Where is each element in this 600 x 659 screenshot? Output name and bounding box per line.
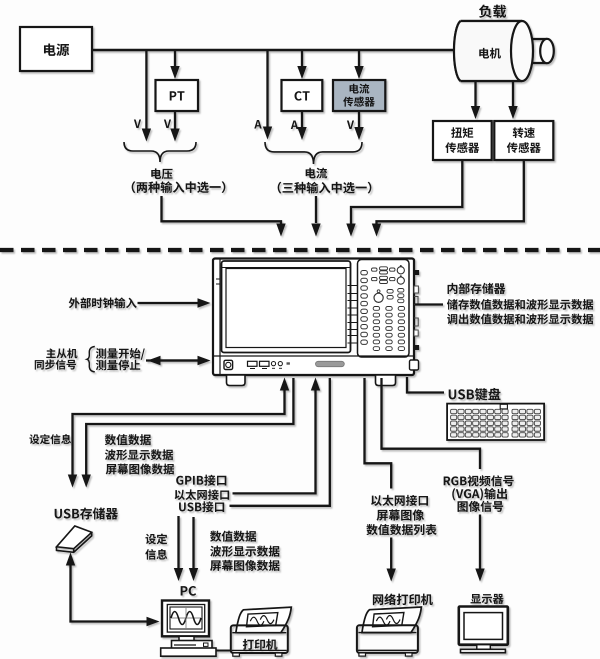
wire torque sensor to analyzer	[351, 160, 462, 224]
wire network printer from analyzer	[365, 378, 392, 489]
vent slot	[316, 361, 345, 366]
wire usb storage setting info (bidirectional)	[73, 389, 285, 476]
panel knob B	[397, 277, 404, 284]
label PC	[181, 586, 196, 596]
pc base	[172, 641, 213, 649]
arrow to network printer	[390, 538, 392, 571]
panel knob A	[397, 267, 404, 274]
arrow into current sensor	[358, 50, 360, 67]
label 调出数值数据和波形显示数据	[447, 314, 593, 325]
label 波形显示数据 (usb storage)	[105, 449, 173, 460]
box 扭矩传感器 (torque sensor)	[433, 121, 492, 160]
wire main bus	[92, 49, 453, 52]
power button	[224, 360, 233, 369]
arrow usb interface down to pc	[177, 516, 179, 570]
label 信息 (pc column)	[145, 549, 167, 560]
control panel	[358, 260, 410, 358]
panel soft keys column	[361, 271, 368, 275]
side connector black bottom	[415, 345, 420, 350]
box 转速传感器 (speed sensor)	[494, 121, 553, 160]
softkey ticks	[348, 285, 360, 287]
printer 打印机	[236, 607, 291, 633]
label 数值数据 (pc column)	[210, 531, 256, 542]
wire current group to analyzer	[315, 196, 317, 223]
wire usb storage data out	[86, 378, 293, 476]
panel right small keys	[398, 289, 404, 293]
label 测量开始/	[96, 348, 145, 360]
label 屏幕图像 (printer column)	[377, 509, 425, 520]
label 电压	[151, 168, 172, 179]
arrow into CT	[301, 50, 303, 67]
label A (CT output)	[291, 121, 298, 130]
power analyzer body	[213, 259, 414, 376]
panel center knob	[374, 293, 383, 302]
usb memory stick	[57, 526, 92, 549]
label GPIB接口	[176, 475, 226, 486]
side connector open C	[414, 318, 418, 326]
box 电源 (power source)	[20, 27, 92, 71]
label V (PT output)	[164, 120, 171, 129]
label USB键盘	[449, 388, 501, 401]
left foot	[227, 375, 246, 386]
side connector open A	[414, 286, 418, 293]
label A (direct current)	[254, 120, 261, 129]
front connectors	[271, 362, 275, 366]
label 以太网接口	[175, 489, 230, 500]
label （两种输入中选一）	[132, 181, 226, 193]
label 内部存储器	[448, 283, 506, 294]
arrow motor to torque sensor	[474, 81, 476, 107]
pc neck	[179, 636, 194, 641]
panel button grid	[373, 307, 379, 311]
label （三种输入中选一）	[278, 182, 372, 194]
label (VGA)输出	[452, 488, 507, 501]
arrow motor to speed sensor	[512, 81, 514, 107]
wire V direct drop	[145, 50, 147, 130]
right foot	[376, 375, 396, 386]
keyboard left key block	[451, 409, 457, 413]
pc monitor	[162, 601, 209, 637]
brace current group	[265, 142, 362, 164]
monitor 显示器 drawing	[459, 607, 508, 645]
box 电流传感器 (current sensor)	[333, 80, 385, 111]
label 数值数据列表 (printer column)	[366, 524, 436, 535]
arrow external clock input	[138, 302, 199, 304]
bottom strip divider	[214, 355, 414, 357]
keyboard outer	[447, 404, 544, 440]
screen top bezel line	[222, 267, 350, 269]
keyboard tab key	[500, 404, 507, 409]
panel top buttons	[372, 268, 378, 271]
brace voltage group	[124, 142, 196, 162]
wire usb interface to analyzer	[230, 378, 330, 506]
arrow sensor output V	[358, 111, 360, 128]
label V (sensor output)	[347, 121, 354, 130]
arrow into PT	[174, 50, 176, 67]
label 显示器	[471, 594, 504, 604]
arrow data down to pc	[192, 517, 194, 570]
arrow to monitor	[479, 515, 481, 571]
wire voltage group to analyzer	[162, 196, 282, 224]
pc waveform	[171, 617, 201, 619]
label 数值数据 (usb storage)	[105, 434, 151, 445]
arrow CT output A	[301, 111, 303, 128]
screen display area	[226, 269, 346, 348]
side connector black top	[415, 270, 420, 275]
printer 网络打印机 drawing	[362, 607, 422, 633]
wire to internal memory text	[415, 303, 444, 305]
wire ethernet interface to analyzer	[233, 389, 316, 493]
wire speed sensor to analyzer	[377, 160, 524, 224]
label 波形显示数据 (pc column)	[210, 546, 279, 557]
dashed separator	[0, 248, 600, 252]
label 图像信号	[458, 501, 504, 512]
label V (direct voltage)	[134, 120, 141, 129]
label RGB视频信号	[444, 475, 514, 486]
label 屏幕图像数据 (usb storage)	[106, 464, 174, 475]
motor cylinder body	[454, 21, 522, 81]
wire vga from analyzer	[382, 378, 481, 469]
label USB接口	[179, 501, 224, 512]
label 电机 (motor)	[479, 48, 501, 59]
screen outer frame	[222, 261, 351, 353]
box CT	[282, 80, 323, 111]
front usb ports	[248, 361, 258, 366]
label 同步信号	[35, 360, 76, 370]
label 储存数值数据和波形显示数据	[447, 299, 593, 310]
label 网络打印机	[373, 594, 433, 606]
label 主从机	[46, 348, 77, 358]
box PT	[156, 80, 199, 111]
label 屏幕图像数据 (pc column)	[210, 560, 279, 571]
arrow PT output V	[174, 111, 176, 130]
label 以太网接口 (printer column)	[371, 495, 428, 506]
label 负载 (load)	[479, 5, 506, 18]
wire to usb keyboard	[407, 377, 444, 393]
motor shaft	[526, 39, 547, 63]
wire A direct drop	[266, 50, 268, 128]
label 设定 (pc column)	[145, 534, 167, 545]
right side lug	[410, 360, 419, 370]
label USB存储器	[55, 507, 118, 519]
analyzer left inner edge	[219, 259, 221, 376]
wire pc to printer	[216, 650, 231, 652]
motor right end face	[511, 21, 533, 81]
label 电流	[306, 168, 328, 179]
brace master-slave	[87, 347, 95, 372]
label 外部时钟输入	[69, 297, 137, 308]
wire usb stick to pc	[71, 564, 149, 622]
side connector open B	[414, 297, 418, 305]
label 设定信息 (usb storage)	[29, 434, 71, 444]
label 测量停止	[96, 360, 140, 371]
keyboard right key block	[512, 409, 518, 413]
double arrow sync signal	[146, 359, 199, 361]
